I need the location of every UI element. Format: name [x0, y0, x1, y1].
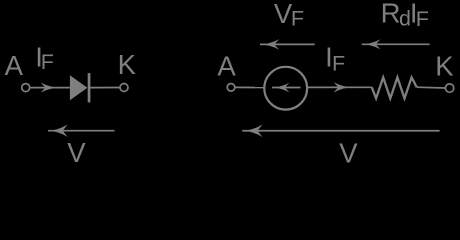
voltage arrow V (diode symbol) [47, 124, 114, 137]
label IF (left) [35, 41, 54, 74]
node K (diode symbol) [118, 49, 137, 80]
voltage arrow VF over source [259, 39, 315, 50]
svg-text:R: R [381, 0, 401, 29]
svg-text:F: F [416, 7, 429, 31]
svg-text:A: A [5, 50, 24, 81]
source inner arrow [271, 83, 300, 93]
svg-text:F: F [332, 52, 345, 76]
terminal A (model) [227, 84, 235, 92]
voltage arrow V (model) [242, 124, 440, 137]
label IF (model) [325, 42, 345, 76]
wire diode cathode to K [90, 87, 120, 89]
svg-text:V: V [339, 138, 358, 168]
voltage arrow Rd·IF over resistor [361, 39, 430, 49]
resistor Rd zigzag [372, 77, 417, 98]
voltage source VF (circle) [264, 67, 307, 110]
svg-text:F: F [41, 50, 54, 74]
current arrow IF on anode wire [41, 83, 61, 93]
node K (model) [435, 50, 454, 81]
label V (diode symbol) [67, 137, 86, 168]
svg-text:A: A [217, 51, 236, 82]
label V (model) [339, 138, 358, 169]
wire resistor to K [417, 86, 446, 89]
current arrow IF on wire [334, 82, 354, 92]
terminal A (diode symbol) [22, 84, 30, 92]
wire A to diode anode [30, 87, 70, 89]
svg-text:F: F [291, 6, 304, 30]
diode D1 triangle (anode) [70, 75, 88, 100]
terminal K (diode symbol) [120, 84, 128, 92]
svg-text:K: K [435, 50, 454, 81]
node A (diode symbol) [5, 50, 24, 81]
node A (model) [217, 51, 236, 82]
svg-text:K: K [118, 49, 137, 80]
terminal K (model) [445, 84, 453, 92]
wire A to source [235, 86, 264, 88]
svg-text:V: V [67, 137, 86, 168]
label VF (source voltage) [274, 0, 304, 30]
wire source to resistor [307, 86, 372, 88]
diode D1 cathode bar [88, 73, 91, 102]
label Rd IF (resistor voltage) [381, 0, 429, 31]
